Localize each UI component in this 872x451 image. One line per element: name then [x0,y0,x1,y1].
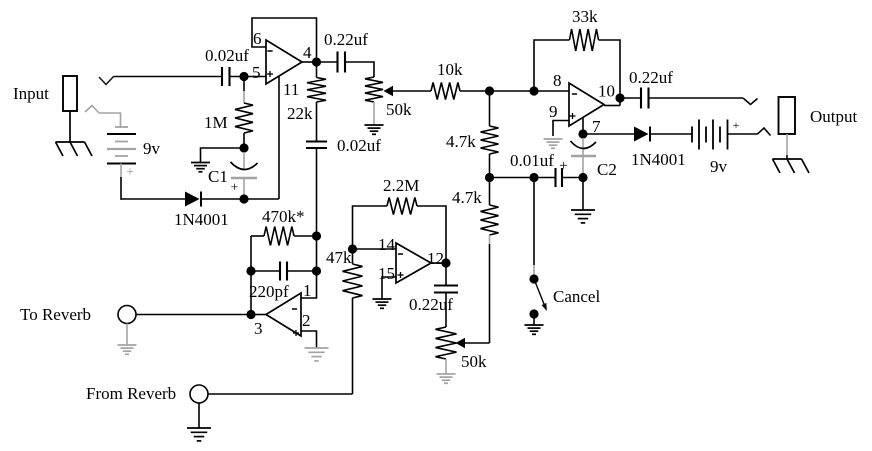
wire pin 14 [353,248,397,250]
wire U1 feedback [252,18,317,62]
ground near 1M [191,162,210,164]
potentiometer 50k top [365,77,383,102]
svg-text:2: 2 [302,311,311,330]
wire 220pf right lead [287,270,317,272]
capacitor 0.22uf coupling [336,52,338,73]
node C2 bottom [578,173,587,182]
wire wiper to 4.7k rail [465,342,490,344]
node U2 output pin 12 [441,258,450,267]
wire diode to battery B2 [650,133,692,135]
node 33k tap [529,86,538,95]
pot wiper arrow bottom [456,338,466,348]
svg-text:6: 6 [253,29,262,48]
wire 33k feedback left [534,40,570,91]
svg-text:Input: Input [13,84,49,103]
svg-text:+: + [559,158,567,174]
ground chassis input [56,141,85,143]
wire mid node to 0.01uf [490,177,556,179]
node 220pf left [246,266,255,275]
wire 4.7k second to wiper [489,235,491,244]
U4 plus mark [293,332,299,334]
wire U2 output [431,262,446,264]
wire 22k to cap [316,102,318,142]
node 1M C1 junction [239,143,248,152]
svg-text:9: 9 [549,102,558,121]
svg-text:9v: 9v [143,139,161,158]
op-amp U3 pins 8 9 10 7 [569,83,604,126]
U1 minus mark [267,50,272,52]
wire cap to output jack [649,97,744,99]
node pin5 junction [239,72,248,81]
capacitor 0.01uf [554,168,556,187]
wire battery positive lead [120,164,122,178]
wire cap to pot 50k [345,62,374,77]
svg-text:From Reverb: From Reverb [86,384,176,403]
wire wiper to 10k [393,90,432,92]
output jack J2 [779,97,796,134]
node U4 input [246,310,255,319]
capacitor 0.22uf output [640,88,642,109]
svg-text:470k*: 470k* [262,207,305,226]
connector From Reverb [190,385,208,403]
wire to reverb [136,314,251,316]
wire input signal [114,76,223,78]
svg-text:9v: 9v [710,157,728,176]
wire 0.02uf to 470k [316,235,318,237]
wire pin 7 to diode D2 [583,133,634,135]
wire jack sleeve to ground [69,111,71,142]
resistor 47k [343,264,363,298]
wire to-reverb ground lead [126,324,128,346]
capacitor 0.02uf input [221,67,223,86]
wire diode to C1 node [201,198,244,200]
wire from-reverb ground lead [198,403,200,428]
wire pin12 to cap [445,263,447,286]
svg-text:11: 11 [283,80,299,99]
wire 0.01uf to C2 node [562,177,583,179]
svg-text:47k: 47k [326,248,352,267]
svg-text:0.22uf: 0.22uf [629,68,673,87]
battery B2 9v [691,127,693,143]
svg-text:4.7k: 4.7k [446,132,476,151]
wire cap to pin 5 [230,76,267,78]
wire 47k to from-reverb [352,298,354,394]
svg-text:1M: 1M [204,113,228,132]
svg-text:4: 4 [303,43,312,62]
capacitor 0.02uf feedback [306,140,327,142]
wire battery B2 to ring [728,133,758,135]
wire cap to 470k node [316,148,318,236]
U3 plus mark [570,115,576,117]
ground pot 50k bottom [437,373,456,375]
wire pin 2 to ground [301,331,317,348]
svg-text:+: + [231,181,239,196]
ground from-reverb [187,427,211,429]
switch arm with arrow [534,279,544,304]
ground pin 9 [544,138,563,140]
wire jack2 sleeve to ground [786,134,788,155]
op-amp U2 pins 14 15 12 [396,243,431,283]
svg-text:10k: 10k [437,60,463,79]
wire 2.2M feedback left [353,206,388,249]
ground pot 50k top [365,124,384,126]
resistor 22k [307,78,326,103]
svg-text:0.22uf: 0.22uf [324,30,368,49]
U1 plus mark [267,73,273,75]
resistor 1M [235,103,253,133]
jack tip contact [99,77,114,85]
op-amp U4 pins 1 2 3 [266,293,301,336]
svg-text:Cancel: Cancel [553,287,600,306]
wire node to 1M [243,77,245,92]
svg-text:220pf: 220pf [249,282,289,301]
potentiometer 50k bottom [436,327,457,359]
ground chassis output [773,158,802,160]
svg-text:33k: 33k [572,7,598,26]
wire left rail [250,236,252,315]
svg-text:1N4001: 1N4001 [631,150,686,169]
wire from reverb [208,393,353,395]
svg-text:To Reverb: To Reverb [20,305,91,324]
resistor 470k [264,227,294,246]
wire pin 9 to ground [553,121,569,137]
wire pin 15 to ground [382,277,396,299]
wire U3 output [604,105,620,107]
svg-text:50k: 50k [386,100,412,119]
resistor 2.2M [387,198,417,215]
jack ring contact [85,106,99,114]
wire pin4 to cap [317,61,338,63]
node 220pf right [312,266,321,275]
node 470k right [312,231,321,240]
svg-text:2.2M: 2.2M [383,176,419,195]
battery B1 9v [115,126,128,128]
svg-text:14: 14 [378,235,396,254]
pot wiper arrow [384,86,394,96]
input jack J1 [63,76,77,111]
wire right rail to pin 1 [301,236,317,298]
diode D1 1N4001 [185,192,200,207]
connector To Reverb [118,306,136,324]
svg-text:1: 1 [303,281,312,300]
capacitor 0.22uf bottom [434,284,458,286]
svg-text:10: 10 [598,82,615,101]
svg-text:50k: 50k [461,352,487,371]
wire U4 tip to node [251,314,266,316]
svg-text:+: + [733,118,740,132]
wire node to ground [201,148,245,163]
svg-text:8: 8 [553,71,562,90]
U2 minus mark [398,253,403,255]
op-amp U1 pins 6 5 4 11 [266,40,302,84]
ground pin 15 [373,298,392,300]
node switch top [529,274,538,283]
wire C2 to ground [582,178,584,211]
wire 470k left lead [251,235,264,237]
svg-text:0.02uf: 0.02uf [337,136,381,155]
wire 4.7k to mid node [489,154,491,178]
ground cancel switch [525,324,544,326]
svg-text:0.01uf: 0.01uf [510,151,554,170]
svg-text:5: 5 [252,63,261,82]
wire ring to battery [99,113,121,127]
node C1 diode junction [239,194,248,203]
svg-text:C1: C1 [208,167,228,186]
wire node to 4.7k second [489,178,491,206]
wire pin4 to 22k [316,62,318,78]
svg-text:12: 12 [427,249,444,268]
node switch bottom [529,309,538,318]
node mid rail [485,173,494,182]
wire 10k to U3 pin 8 [460,90,569,92]
wire node to 4.7k first [489,91,491,126]
svg-text:4.7k: 4.7k [452,188,482,207]
U4 minus mark [292,308,297,310]
wire 1M to node [243,133,245,148]
ground to-reverb [118,344,137,346]
svg-text:Output: Output [810,107,858,126]
node pin 7 [578,129,587,138]
output jack tip contact [743,98,758,105]
capacitor C2 electrolytic [582,138,584,173]
svg-text:C2: C2 [597,160,617,179]
wire pot to ground [373,102,375,125]
node cancel tap [529,173,538,182]
node 47k top [348,244,357,253]
svg-text:22k: 22k [287,104,313,123]
node 4.7k top [485,86,494,95]
svg-text:7: 7 [592,117,601,136]
resistor 4.7k first [481,126,499,154]
wire 47k top lead [352,249,354,264]
wire 220pf left lead [251,270,280,272]
U2 plus mark [398,274,404,276]
resistor 33k [570,29,599,51]
capacitor 220pf [279,262,281,281]
resistor 4.7k second [481,205,499,235]
diode D2 1N4001 [634,127,649,142]
capacitor C1 electrolytic [243,152,245,170]
wire battery to diode D1 [121,198,185,200]
wire 2.2M feedback right [417,206,446,259]
output jack ring contact [758,128,771,136]
resistor 10k [431,83,460,100]
wire pot bottom to ground [445,359,447,374]
wire pin 7 [582,117,584,134]
node U3 output pin 10 [615,93,624,102]
node U1 output pin 4 [312,57,321,66]
wire cap to pot [445,293,447,328]
ground pin 2 [305,347,329,349]
svg-text:+: + [126,164,133,179]
wire C1 node to pin 11 [244,198,279,200]
wire cancel rail [533,178,535,266]
wire 470k right lead [294,235,317,237]
svg-text:15: 15 [378,264,395,283]
wire pin10 to cap [620,97,641,99]
wire switch to ground [533,314,535,325]
wire U1 output [302,61,317,63]
ground C2 [571,209,595,211]
svg-text:1N4001: 1N4001 [174,210,229,229]
U3 minus mark [572,93,577,95]
svg-text:3: 3 [254,319,263,338]
svg-text:0.02uf: 0.02uf [205,46,249,65]
wire 33k feedback right [599,40,621,106]
